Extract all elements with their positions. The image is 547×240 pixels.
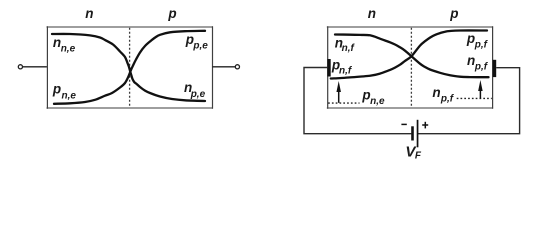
svg-text:p: p	[466, 31, 475, 46]
svg-text:n,e: n,e	[61, 44, 76, 55]
svg-text:p: p	[52, 81, 61, 96]
svg-text:n: n	[368, 6, 376, 21]
svg-text:p: p	[449, 6, 458, 21]
svg-text:p,f: p,f	[474, 39, 489, 50]
svg-text:p,f: p,f	[440, 93, 455, 104]
svg-text:n,e: n,e	[370, 96, 385, 107]
svg-text:n,e: n,e	[62, 90, 77, 101]
svg-text:F: F	[415, 150, 422, 161]
svg-text:n,f: n,f	[342, 43, 356, 54]
svg-text:n: n	[85, 6, 93, 21]
svg-text:p,e: p,e	[190, 89, 206, 100]
svg-text:n,f: n,f	[339, 66, 353, 77]
svg-text:n: n	[432, 85, 440, 100]
svg-text:p,f: p,f	[474, 62, 489, 73]
svg-text:p,e: p,e	[192, 40, 208, 51]
svg-text:p: p	[167, 6, 176, 21]
